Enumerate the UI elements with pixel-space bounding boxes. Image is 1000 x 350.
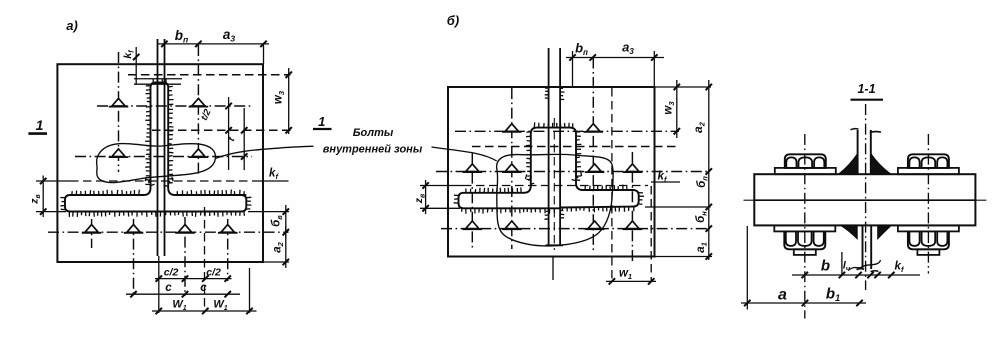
weld hatching right strip top (view b) <box>585 185 627 190</box>
dimension z left (view a) <box>42 176 44 218</box>
bolt B4 inner zone (view a) <box>192 149 205 157</box>
plate top extension right (view b) <box>655 86 712 88</box>
svg-text:b: b <box>821 258 830 275</box>
strip bottom extension left (view b) <box>420 207 460 209</box>
bolt column centerline x185 (view a) <box>184 217 186 296</box>
weld hatching flange bottom (view a) <box>69 212 244 217</box>
svg-text:1: 1 <box>318 114 325 129</box>
bolt C1 (view b) <box>505 124 518 132</box>
bolt row 3 centerline (view a) <box>48 231 289 233</box>
dimension line lower (section 1-1) <box>741 302 866 304</box>
svg-text:1: 1 <box>36 117 44 133</box>
bolt column centerline x593 (view b) <box>592 58 594 251</box>
column web bottom cap (view b) <box>546 244 564 246</box>
kf dimension line right (view b) <box>651 181 680 183</box>
weld hatching stub sides (view b) <box>545 211 549 219</box>
svg-text:б): б) <box>447 13 459 28</box>
bolt row 3 centerline (view b) <box>441 228 710 230</box>
weld hatching stem fillet left (view b) <box>526 174 535 184</box>
weld hatching flange top left (view a) <box>72 190 140 195</box>
extension line W1 right (view b) <box>650 186 652 282</box>
weld hatching flange left end (view a) <box>60 198 65 210</box>
dimension line bп+a3 top (view b) <box>566 57 664 59</box>
bolt column centerline x632 (view b) <box>631 152 633 263</box>
column web lines (view b) <box>548 48 550 245</box>
bolt B1 (view a) <box>112 98 125 106</box>
bolt centerline right (section 1-1) <box>927 134 929 274</box>
upper web (section 1-1) <box>857 130 859 174</box>
hidden contour dashed vertical (view a) <box>204 207 206 312</box>
weld hatching stem right edge (view a) <box>168 86 173 183</box>
hidden edge dashed line mid (view a) <box>152 129 291 131</box>
bolt column centerline x118 (view a) <box>118 52 120 172</box>
weld hatching stem left edge (view a) <box>145 86 150 185</box>
web break marks bottom (section 1-1) <box>857 268 865 271</box>
weld hatching stem left (view b) <box>526 132 531 180</box>
bolt column centerline x198 (view a) <box>197 45 199 177</box>
dimension w3 right (view a) <box>288 68 290 134</box>
small upper line (view a) <box>134 78 182 80</box>
tee stem fillet right (view a) <box>168 188 246 195</box>
bolt B5 (view a) <box>85 225 98 233</box>
bolt column centerline x472 (view b) <box>471 153 473 249</box>
flange weld outline (view a) <box>65 195 246 212</box>
base plate outline (view b) <box>448 87 655 257</box>
leader squiggle l4 (section 1-1) <box>850 260 881 270</box>
svg-text:c/2: c/2 <box>164 266 179 278</box>
bolt head top-right (section 1-1) <box>898 168 959 174</box>
weld hatching strips bottom (view b) <box>462 208 555 213</box>
bolt C7 (view b) <box>466 221 479 229</box>
bolt C6 inner zone (view b) <box>626 164 639 172</box>
weld fillet bottom-right solid (section 1-1) <box>878 225 892 238</box>
bolt C4 inner zone (view b) <box>505 164 518 172</box>
column break marks at plate edge (view b) <box>545 88 549 99</box>
column web centerline (view b) <box>553 118 555 250</box>
bolt row 1 centerline (view a) <box>97 105 251 107</box>
left flange strip weld outline (view b) <box>459 193 561 209</box>
svg-text:c/2: c/2 <box>206 266 221 278</box>
bolt column centerline x512 (view b) <box>511 88 513 249</box>
svg-text:c: c <box>165 282 172 294</box>
bolt row 1 centerline (view b) <box>455 130 679 132</box>
extension plate edge up (view b) <box>653 51 655 87</box>
kf extension line top-left (view a) <box>135 47 137 84</box>
weld reference line kf (view a) <box>36 180 70 182</box>
bolt row 2 centerline (view b) <box>436 171 710 173</box>
bolt B6 (view a) <box>127 225 140 233</box>
tee stem weld outline (view a) <box>151 83 169 189</box>
bolt C9 (view b) <box>588 221 601 229</box>
base plate outline (view a) <box>57 64 263 262</box>
svg-text:Болты: Болты <box>353 127 394 139</box>
inner zone oval (view a) <box>97 144 216 183</box>
svg-text:внутренней зоны: внутренней зоны <box>323 144 423 156</box>
leader from note to view b oval <box>432 147 497 161</box>
plate bottom extension right (view a) <box>263 261 289 263</box>
stem fillet left (view b) <box>464 186 531 193</box>
plate bottom extension right (view b) <box>655 256 713 258</box>
dimension a2 right (view a) <box>285 226 287 268</box>
extension line plate left (section 1-1) <box>746 226 748 310</box>
dimension t/2 (view a) <box>228 97 230 170</box>
svg-text:c: c <box>200 282 207 294</box>
dimension w3 (view b) <box>676 80 678 138</box>
stem weld outline (view b) <box>531 128 576 186</box>
bolt column centerline x92 (view a) <box>91 219 93 248</box>
bolt B3 inner zone (view a) <box>112 149 125 157</box>
weld hatching left strip end (view b) <box>454 195 459 203</box>
leader from oval to note (view a) <box>215 146 313 158</box>
dimension W1 bottom (view b) <box>606 280 656 282</box>
hidden edge dashed line upper (view a) <box>128 74 291 76</box>
bolt B7 (view a) <box>178 225 191 233</box>
nut bottom-left (section 1-1) <box>774 225 835 231</box>
lower web (section 1-1) <box>862 225 864 269</box>
plates interface centerline extension (section 1-1) <box>744 199 755 201</box>
extension line right edge up (view a) <box>263 44 265 64</box>
web break marks top (section 1-1) <box>851 129 859 130</box>
svg-text:a: a <box>778 287 787 304</box>
weld hatching stem top cap (view a) <box>153 78 166 83</box>
hidden edge dashed line (view b) <box>472 146 677 148</box>
bolt column centerline x228 (view a) <box>227 219 229 281</box>
column extension below plate (view b) <box>552 257 554 281</box>
weld hatching flange right end (view a) <box>246 197 251 209</box>
weld hatching stem right (view b) <box>576 132 581 180</box>
dimension t (view a) <box>243 108 245 170</box>
svg-text:а): а) <box>66 18 78 33</box>
weld hatching stem fillet right (view a) <box>164 177 174 187</box>
bolt B8 (view a) <box>221 225 234 233</box>
dimension c/2 c/2 (view a) <box>155 278 232 280</box>
dimension stack right (view b) <box>708 80 710 260</box>
dimension z left (view b) <box>425 180 427 214</box>
small shoulder line (view a) <box>134 83 181 85</box>
bolt row 2 centerline (view a) <box>75 156 252 158</box>
flange bottom extension left (view a) <box>36 211 66 213</box>
splice plates (section 1-1) <box>754 174 975 225</box>
vertical centerline (section 1-1) <box>865 104 867 290</box>
bolt column centerline x133 (view a) <box>133 219 135 296</box>
extension line bottom right (view a) <box>249 268 251 313</box>
weld fillet top-right solid (section 1-1) <box>871 154 891 175</box>
flange bottom extension right (view a) <box>248 211 289 213</box>
hidden contour dashed vertical (view b) <box>611 88 613 282</box>
dimension line upper (section 1-1) <box>792 274 920 276</box>
extension line bottom left (view a) <box>158 256 160 313</box>
extension stem edge up (view b) <box>572 51 574 87</box>
bolt C3 inner zone (view b) <box>466 164 479 172</box>
weld hatching flange top right (view a) <box>177 190 244 195</box>
weld hatching stem cap (view b) <box>534 122 572 127</box>
strip bottom extension right (view b) <box>645 206 711 208</box>
bolt B2 (view a) <box>192 98 205 106</box>
stem fillet right (view b) <box>576 183 633 190</box>
weld hatching stem fillet left (view a) <box>145 177 154 186</box>
weld hatching left strip top (view b) <box>466 188 521 193</box>
bolt C10 (view b) <box>626 221 639 229</box>
bolt centerline left (section 1-1) <box>804 134 806 319</box>
inner zone blob (view b) <box>497 154 614 246</box>
dimension bв right (view a) <box>285 205 287 238</box>
dimension c c (view a) <box>126 293 240 295</box>
dimension W1 W1 (view a) <box>152 310 257 312</box>
column web lines (view a) <box>157 39 159 256</box>
weld hatching stem fillet right (view b) <box>572 171 582 181</box>
tee stem fillet left (view a) <box>70 188 151 195</box>
bolt C2 (view b) <box>587 124 600 132</box>
bolt C5 inner zone (view b) <box>588 164 601 172</box>
extension weld edge left (section 1-1) <box>841 252 843 276</box>
dimension line bп+a3 top (view a) <box>158 43 269 45</box>
svg-text:1-1: 1-1 <box>857 82 875 96</box>
weld reference line kf (view b) <box>420 185 463 187</box>
bolt C8 (view b) <box>505 221 518 229</box>
right flange strip weld outline (view b) <box>560 190 639 208</box>
weld fillet bottom-left solid (section 1-1) <box>841 225 857 238</box>
weld fillet top-left solid (section 1-1) <box>839 154 858 175</box>
splice plates interface line (section 1-1) <box>754 199 975 201</box>
bolt head top-left (section 1-1) <box>775 168 836 174</box>
nut bottom-right (section 1-1) <box>898 225 959 231</box>
weld hatching right strip end (view b) <box>639 193 644 205</box>
